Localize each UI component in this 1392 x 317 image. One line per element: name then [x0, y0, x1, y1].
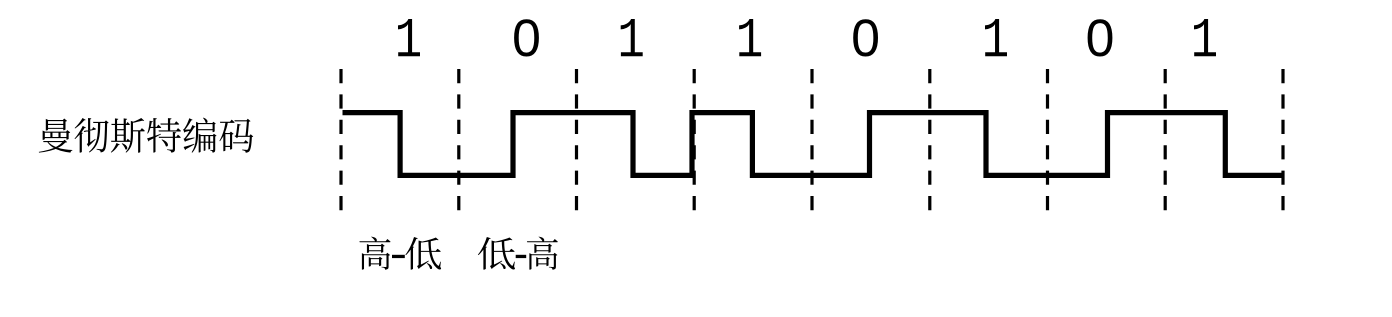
character 高 [527, 237, 558, 270]
bit value digit "1" (cell 8) [1194, 19, 1216, 56]
bit-cell boundary dashed line 3 [575, 69, 578, 210]
bit value digit "0" (cell 5) [853, 19, 878, 56]
bit value digit "1" (cell 3) [621, 19, 643, 56]
character 特 [147, 118, 181, 153]
character 低 [405, 237, 441, 270]
bit-cell boundary dashed line 2 [457, 69, 460, 210]
bit value digit "1" (cell 1) [398, 19, 420, 56]
bit-cell boundary dashed line 5 [810, 69, 813, 210]
bit value digit "0" (cell 7) [1088, 19, 1113, 56]
label 低-高 (low-to-high = bit 0) [478, 237, 558, 270]
character 低 [478, 237, 515, 270]
Manchester encoded waveform trace (bits 1 0 1 1 0 1 0 1) [343, 113, 1284, 176]
character 斯 [111, 118, 145, 153]
label 高-低 (high-to-low = bit 1) [359, 237, 441, 270]
bit-cell boundary dashed line 9 [1281, 69, 1284, 210]
character 彻 [75, 118, 109, 153]
bit-cell boundary dashed line 1 [339, 69, 342, 210]
title label 曼彻斯特编码 (Manchester encoding) [39, 118, 253, 153]
bit-cell boundary dashed line 4 [693, 69, 696, 210]
hyphen of 高-低 [392, 255, 405, 258]
character 曼 [39, 119, 73, 153]
hyphen of 低-高 [516, 255, 527, 258]
character 编 [183, 118, 216, 153]
bit value digit "0" (cell 2) [514, 19, 539, 56]
bit value digit "1" (cell 6) [985, 19, 1007, 56]
bit-cell boundary dashed line 7 [1046, 69, 1049, 210]
bit-cell boundary dashed line 8 [1164, 69, 1167, 210]
character 高 [359, 237, 390, 270]
character 码 [219, 119, 253, 153]
bit value digit "1" (cell 4) [739, 19, 761, 56]
bit-cell boundary dashed line 6 [928, 69, 931, 210]
